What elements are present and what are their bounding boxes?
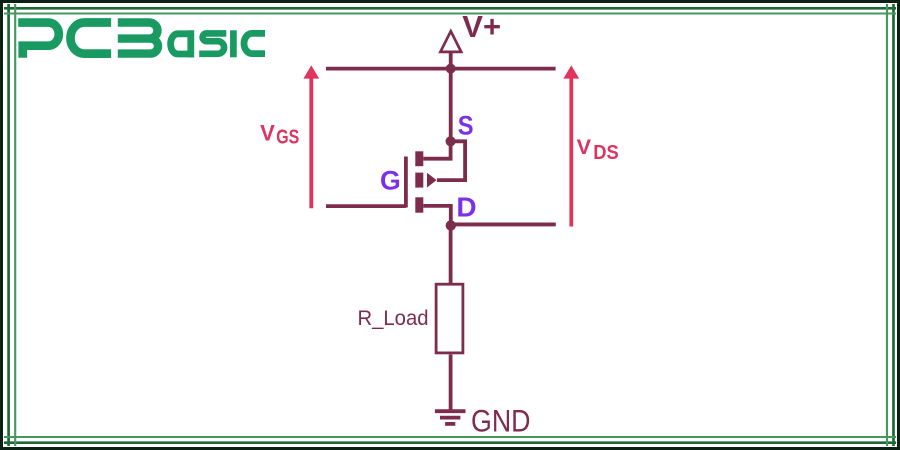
logo letter C: [70, 23, 111, 54]
wire source to channel: [423, 141, 450, 158]
svg-text:GND: GND: [471, 403, 531, 439]
node S junction: [446, 136, 456, 146]
svg-text:GS: GS: [276, 126, 299, 149]
V+ terminal triangle: [440, 31, 461, 52]
node top junction: [446, 64, 456, 74]
logo letter c: [244, 33, 265, 53]
svg-text:DS: DS: [593, 141, 619, 164]
svg-text:D: D: [456, 192, 476, 223]
logo letter P: [18, 23, 59, 58]
transistor body arrow: [427, 173, 437, 188]
wire top rail: [326, 67, 556, 71]
transistor gate line: [404, 157, 408, 208]
logo letter a: [171, 30, 191, 57]
arrow VDS: [563, 65, 579, 226]
wire body tie: [437, 141, 465, 180]
wire drain rail: [451, 222, 556, 226]
svg-text:V: V: [577, 134, 592, 159]
ground: [435, 411, 466, 424]
svg-text:V+: V+: [462, 9, 501, 44]
logo letter B: [118, 23, 158, 54]
wire supply to source: [449, 69, 453, 142]
wire resistor to ground: [449, 355, 453, 412]
arrow VGS: [303, 65, 319, 208]
wire drain from channel: [423, 206, 451, 226]
logo letter i: [230, 30, 237, 57]
resistor R_Load: [436, 284, 463, 353]
wire gate lead: [326, 204, 406, 208]
node D junction: [446, 220, 456, 230]
svg-text:S: S: [458, 110, 474, 140]
svg-text:V: V: [260, 120, 275, 145]
wire drain to resistor: [449, 226, 453, 284]
logo letter s: [199, 33, 226, 53]
svg-text:G: G: [380, 165, 401, 195]
logo PCBasic: [18, 23, 265, 58]
svg-text:R_Load: R_Load: [358, 307, 429, 330]
transistor channel bars: [415, 151, 423, 212]
wire V+ stub: [449, 52, 453, 69]
